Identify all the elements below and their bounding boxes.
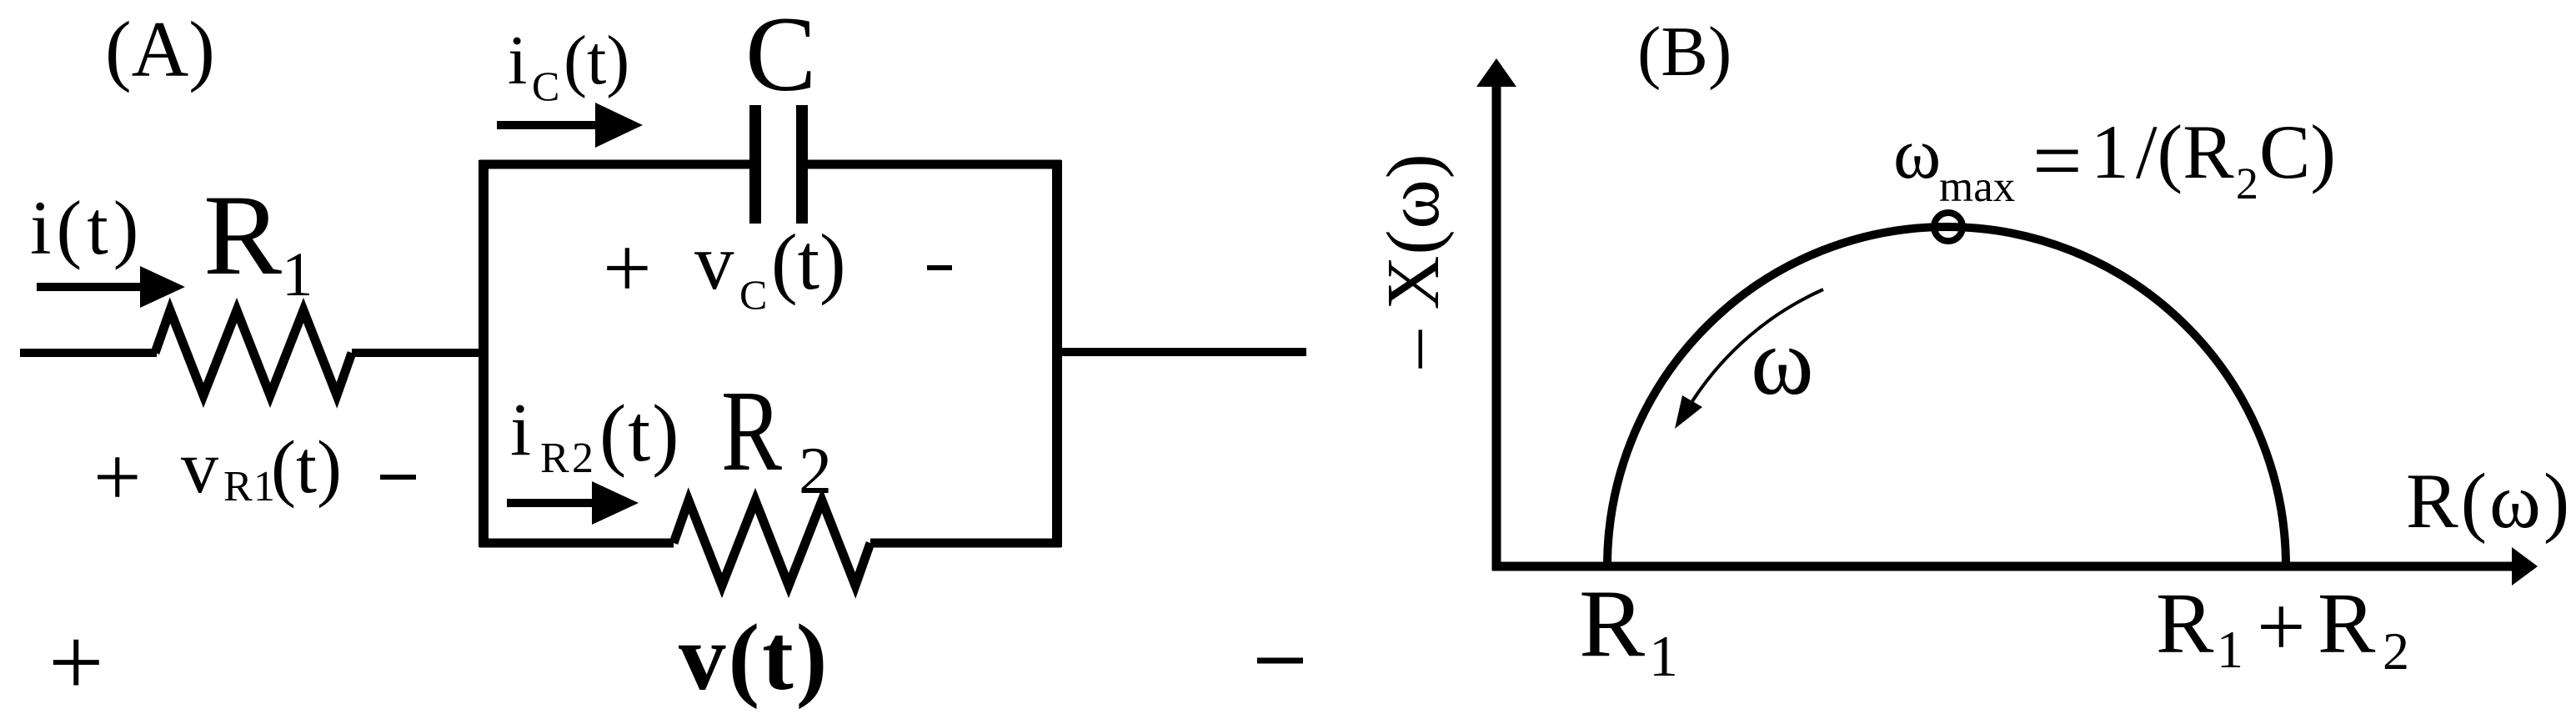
svg-text:i(t): i(t) bbox=[30, 185, 143, 270]
x axis bbox=[1492, 562, 2518, 571]
svg-text:R: R bbox=[2318, 576, 2376, 671]
svg-text:max: max bbox=[1939, 163, 2015, 211]
svg-text:C: C bbox=[532, 63, 559, 109]
box bottom wire left segment bbox=[479, 539, 674, 548]
svg-text:1: 1 bbox=[2217, 620, 2243, 679]
svg-text:(t): (t) bbox=[564, 22, 629, 99]
resistor R2 bbox=[674, 500, 870, 586]
label omega_max formula bbox=[1893, 109, 2336, 211]
y axis bbox=[1492, 79, 1501, 571]
svg-text:R: R bbox=[2156, 576, 2214, 671]
svg-text:i: i bbox=[508, 22, 527, 99]
marker omega max bbox=[1934, 213, 1962, 241]
svg-text:+: + bbox=[93, 430, 142, 525]
svg-text:(t): (t) bbox=[599, 389, 681, 478]
box bottom wire right segment bbox=[870, 539, 1061, 548]
svg-text:(A): (A) bbox=[105, 5, 215, 93]
wire input bbox=[20, 349, 157, 357]
box top wire right segment bbox=[808, 160, 1061, 169]
svg-text:=: = bbox=[2032, 112, 2082, 209]
label v_C(t) row bbox=[603, 218, 846, 318]
svg-text:1: 1 bbox=[1649, 625, 1678, 689]
label R1 bbox=[203, 171, 313, 309]
svg-text:/(R: /(R bbox=[2136, 109, 2234, 194]
arrow i_C(t) bbox=[497, 103, 643, 148]
arrow i_R2(t) bbox=[507, 481, 639, 525]
svg-text:R(ω): R(ω) bbox=[2406, 458, 2572, 545]
minus v_C bbox=[927, 265, 952, 270]
svg-text:2: 2 bbox=[2236, 158, 2258, 209]
svg-text:2: 2 bbox=[2383, 621, 2409, 681]
svg-text:ω: ω bbox=[1751, 309, 1814, 415]
minus v_R1 bbox=[380, 475, 416, 480]
svg-text:v(t): v(t) bbox=[679, 606, 829, 710]
y axis arrowhead bbox=[1476, 58, 1516, 87]
svg-text:i: i bbox=[510, 389, 531, 471]
box left wire bbox=[479, 160, 489, 547]
svg-text:R: R bbox=[203, 171, 282, 299]
svg-text:2: 2 bbox=[799, 435, 832, 508]
svg-text:1: 1 bbox=[2091, 109, 2129, 194]
label R2 bbox=[721, 367, 832, 508]
svg-text:+: + bbox=[603, 220, 652, 316]
svg-text:C: C bbox=[739, 271, 767, 318]
svg-text:(t): (t) bbox=[771, 218, 846, 306]
svg-text:R: R bbox=[540, 435, 569, 482]
svg-text:R: R bbox=[1579, 571, 1646, 677]
label i_C(t) bbox=[508, 22, 629, 109]
curved arrow omega bbox=[1675, 289, 1823, 429]
svg-text:C: C bbox=[745, 0, 816, 113]
arrow i(t) bbox=[37, 266, 185, 308]
label R1+R2 x-axis bbox=[2156, 576, 2409, 681]
minus terminal bbox=[1257, 658, 1303, 664]
svg-text:(B): (B) bbox=[1637, 13, 1732, 91]
svg-text:R: R bbox=[721, 367, 782, 495]
label v_R1(t) row bbox=[93, 426, 342, 525]
label R1 x-axis bbox=[1579, 571, 1678, 689]
resistor R1 bbox=[155, 310, 352, 395]
svg-text:1: 1 bbox=[282, 240, 313, 309]
svg-text:+: + bbox=[48, 607, 104, 716]
output wire bbox=[1057, 348, 1306, 356]
svg-text:C): C) bbox=[2259, 109, 2336, 194]
wire R1 to box bbox=[352, 349, 489, 357]
semicircle bbox=[1607, 227, 2286, 566]
capacitor C plates bbox=[755, 105, 802, 224]
svg-text:v: v bbox=[181, 426, 218, 509]
svg-text:2: 2 bbox=[572, 435, 594, 482]
label i_R2(t) bbox=[510, 389, 681, 482]
svg-text:R: R bbox=[223, 463, 253, 510]
box right wire bbox=[1052, 160, 1062, 547]
svg-text:ω: ω bbox=[1893, 113, 1941, 194]
svg-text:– X(ω): – X(ω) bbox=[1372, 153, 1455, 369]
svg-text:v: v bbox=[694, 218, 734, 306]
box top wire left segment bbox=[479, 160, 749, 169]
svg-text:(t): (t) bbox=[271, 426, 342, 509]
x axis arrowhead bbox=[2512, 547, 2538, 586]
svg-text:+: + bbox=[2257, 579, 2306, 675]
